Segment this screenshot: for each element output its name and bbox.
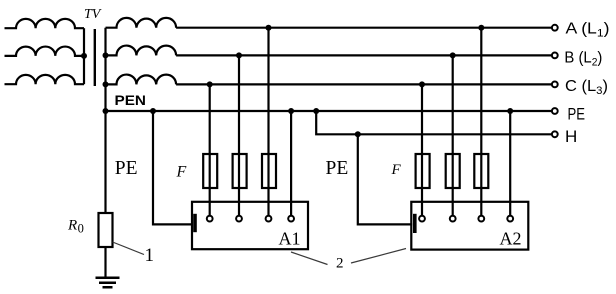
svg-text:PE: PE <box>326 158 349 179</box>
junction dot A1 left connection on PEN <box>150 108 156 114</box>
wire drop PEN to A1 terminal4 <box>290 111 292 216</box>
wire drop A to fuse group2 <box>480 28 482 216</box>
wire drop B to fuse group2 <box>452 55 454 215</box>
fuse F2 <box>233 154 247 188</box>
junction dot PEN at bus <box>103 108 109 114</box>
svg-text:A1: A1 <box>279 229 301 249</box>
A1 terminal pin 1 <box>207 216 213 222</box>
svg-text:PE: PE <box>568 105 586 124</box>
fuse F6 <box>474 154 488 188</box>
wire A1 left PE connection <box>153 111 193 224</box>
fuse F1 <box>203 154 217 188</box>
load box A2 <box>411 202 528 250</box>
junction dot drop C group1 <box>207 81 213 87</box>
junction dot secondary W5 <box>103 52 109 58</box>
A2 contact bar <box>413 214 417 233</box>
terminal circle B <box>552 53 558 59</box>
leader line A1 to label 2 <box>291 252 328 265</box>
transformer TV secondary winding W5 <box>106 46 177 56</box>
wire secondary bus / PE conductor down <box>104 28 106 213</box>
A1 contact bar <box>193 214 197 232</box>
fuse F5 <box>446 154 460 188</box>
wire PEN line <box>106 110 552 112</box>
A2 terminal pin 2 <box>450 216 456 222</box>
A2 terminal pin 1 <box>419 216 425 222</box>
transformer core bar <box>94 29 96 86</box>
svg-text:F: F <box>176 164 187 181</box>
junction dot drop B group1 <box>236 52 242 58</box>
transformer TV primary winding W3 <box>5 75 85 84</box>
A2 terminal pin 3 <box>478 216 484 222</box>
A1 terminal pin 3 <box>266 216 272 222</box>
fuse F3 <box>262 154 276 188</box>
resistor R0 <box>99 213 113 247</box>
wire primary bus <box>83 28 85 84</box>
wire drop C to fuse group1 <box>209 84 211 215</box>
svg-text:TV: TV <box>84 7 102 22</box>
wire drop PE to A2 terminal4 <box>509 111 511 216</box>
junction dot drop A group1 <box>266 25 272 31</box>
junction dot A1 terminal4 on PEN <box>288 108 294 114</box>
wire phase line A <box>176 27 552 29</box>
transformer TV primary winding W1 <box>5 19 85 28</box>
terminal circle C <box>552 82 558 88</box>
svg-text:H: H <box>565 127 577 146</box>
terminal circle H <box>552 131 558 137</box>
svg-text:PEN: PEN <box>115 92 147 108</box>
wire drop C to fuse group2 <box>421 84 423 215</box>
A1 terminal pin 2 <box>236 216 242 222</box>
svg-text:PE: PE <box>115 158 138 179</box>
svg-text:2: 2 <box>336 256 344 272</box>
svg-text:B (L2): B (L2) <box>564 50 602 69</box>
svg-text:C (L3): C (L3) <box>565 78 608 97</box>
wire resistor to ground <box>104 247 106 278</box>
junction dot A2 left connection on H <box>355 131 361 137</box>
wire A2 left PE connection <box>358 134 413 224</box>
transformer TV secondary winding W6 <box>106 75 177 85</box>
junction dot drop B group2 <box>450 52 456 58</box>
junction dot drop C group2 <box>419 81 425 87</box>
svg-text:1: 1 <box>145 245 155 266</box>
load box A1 <box>192 202 308 249</box>
ground symbol <box>96 278 120 288</box>
A1 terminal pin 4 <box>288 216 294 222</box>
junction dot H branch on PEN <box>313 108 319 114</box>
terminal circle A <box>552 25 558 31</box>
junction dot secondary W6 <box>103 81 109 87</box>
transformer TV primary winding W2 <box>5 47 85 56</box>
terminal circle PE <box>552 108 558 114</box>
transformer TV secondary winding W4 <box>106 18 177 28</box>
svg-text:A (L1): A (L1) <box>566 21 610 40</box>
junction dot primary W2 <box>81 53 87 59</box>
junction dot drop A group2 <box>478 25 484 31</box>
leader line A2 to label 2 <box>351 249 406 264</box>
fuse F4 <box>416 154 430 188</box>
junction dot drop PE group2 <box>507 108 513 114</box>
svg-text:A2: A2 <box>500 229 522 249</box>
A2 terminal pin 4 <box>507 216 513 222</box>
wire drop A to fuse group1 <box>267 28 269 216</box>
wire phase line B <box>176 54 552 56</box>
leader line to label 1 <box>113 242 145 255</box>
wire phase line C <box>176 83 552 85</box>
wire H line <box>316 111 552 134</box>
svg-text:F: F <box>391 162 402 178</box>
wire drop B to fuse group1 <box>238 55 240 215</box>
